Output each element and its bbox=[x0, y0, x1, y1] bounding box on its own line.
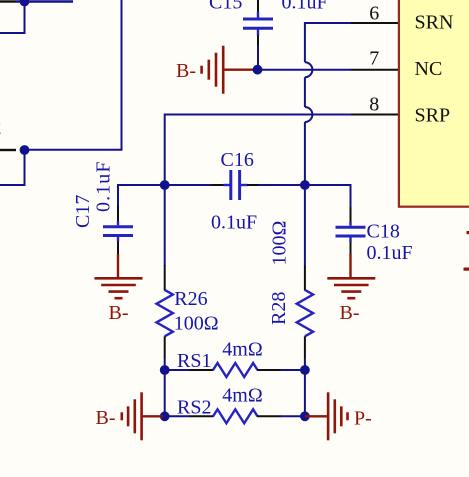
wire RS1-RS2 right bbox=[304, 370, 306, 416]
label RS2 bbox=[177, 396, 211, 418]
wire R28 to RS1 bbox=[304, 359, 306, 371]
pin 6 name SRN bbox=[415, 12, 454, 34]
junction RS2 left bbox=[160, 411, 170, 421]
power wire C17 to ground bbox=[117, 254, 119, 278]
svg-text:P-: P- bbox=[354, 408, 372, 430]
ground B- under C18 bbox=[327, 278, 375, 324]
svg-text:NC: NC bbox=[415, 58, 443, 80]
wire C16 row right bbox=[259, 184, 305, 186]
svg-text:0.1uF: 0.1uF bbox=[282, 0, 328, 14]
label C16 bbox=[221, 149, 254, 171]
label R26 bbox=[174, 288, 207, 310]
resistor RS2 bbox=[189, 409, 280, 423]
wire to C17 bbox=[118, 185, 165, 207]
capacitor C16 bbox=[212, 170, 259, 200]
resistor R26 bbox=[157, 265, 173, 359]
wire RS2 left bbox=[165, 415, 190, 417]
wire RS1-RS2 left bbox=[164, 370, 166, 416]
svg-text:C18: C18 bbox=[367, 221, 400, 243]
svg-text:4mΩ: 4mΩ bbox=[222, 384, 262, 406]
label C17 (vertical) bbox=[72, 195, 94, 228]
svg-text:R28: R28 bbox=[268, 292, 290, 325]
capacitor C15 bbox=[243, 0, 273, 46]
svg-text:C16: C16 bbox=[221, 149, 254, 171]
junction at C15 bottom bbox=[253, 65, 263, 75]
svg-text:0.1uF: 0.1uF bbox=[92, 160, 114, 212]
svg-text:RS2: RS2 bbox=[177, 396, 211, 418]
junction RS1 left bbox=[160, 365, 170, 375]
svg-text:R26: R26 bbox=[174, 288, 207, 310]
power port B- (top) bbox=[176, 46, 256, 94]
label C15 value (cut at top) bbox=[282, 0, 328, 14]
wire junction to R28 bbox=[304, 185, 306, 266]
label C17 value (vertical) bbox=[92, 160, 114, 212]
junction left mid bbox=[20, 145, 30, 155]
pin 8 number bbox=[369, 93, 379, 115]
svg-text:B-: B- bbox=[340, 302, 360, 324]
svg-text:7: 7 bbox=[369, 48, 379, 70]
label R26 value bbox=[174, 312, 219, 334]
junction C16 right bbox=[300, 180, 310, 190]
resistor R28 bbox=[297, 266, 313, 359]
resistor RS1 bbox=[189, 363, 280, 377]
wire to C18 bbox=[305, 185, 351, 208]
label RS1 bbox=[177, 350, 211, 372]
junction RS2 right bbox=[300, 411, 310, 421]
pin 6 number bbox=[369, 2, 379, 24]
svg-text:100Ω: 100Ω bbox=[269, 221, 291, 266]
wire RS2 right bbox=[280, 415, 305, 417]
power port P- (bottom right) bbox=[305, 392, 372, 440]
svg-text:C15: C15 bbox=[209, 0, 242, 14]
wire junction to R26 bbox=[164, 185, 166, 266]
label C18 bbox=[367, 221, 400, 243]
wire R26 to RS1 bbox=[164, 359, 166, 371]
capacitor C18 bbox=[336, 207, 366, 255]
junction RS1 right bbox=[300, 365, 310, 375]
label RS1 value bbox=[222, 339, 262, 361]
label R28 value (vertical) bbox=[269, 221, 291, 266]
wire RS1 left bbox=[165, 369, 190, 371]
label R28 (vertical) bbox=[268, 292, 290, 325]
svg-text:C17: C17 bbox=[72, 195, 94, 228]
wire pin7 row bbox=[258, 69, 352, 71]
svg-text:2: 2 bbox=[0, 117, 2, 139]
svg-text:B-: B- bbox=[109, 302, 129, 324]
ground B- under C17 bbox=[95, 278, 143, 324]
net label fragment (cut at left edge) bbox=[0, 117, 2, 139]
wire top-left step down bbox=[0, 2, 25, 34]
junction C16 left bbox=[160, 180, 170, 190]
wire C16 row left bbox=[118, 184, 212, 186]
wire pin8 row bbox=[165, 115, 351, 186]
power wire C18 to ground bbox=[349, 254, 351, 278]
pin 7 number bbox=[369, 48, 379, 70]
svg-text:SRP: SRP bbox=[415, 104, 451, 126]
label C16 value bbox=[211, 212, 257, 234]
pin 8 line bbox=[351, 114, 398, 116]
wire RS1 right bbox=[280, 369, 305, 371]
pin stub left mid (black, cut) bbox=[0, 149, 16, 151]
svg-text:SRN: SRN bbox=[415, 12, 454, 34]
label RS2 value bbox=[222, 384, 262, 406]
power port B- (bottom left) bbox=[96, 392, 164, 440]
svg-text:0.1uF: 0.1uF bbox=[211, 212, 257, 234]
pin 7 name NC bbox=[415, 58, 443, 80]
svg-text:0.1uF: 0.1uF bbox=[367, 242, 413, 264]
wire left mid step down bbox=[0, 150, 25, 185]
wire pin6 with hops bbox=[305, 23, 351, 185]
pin 8 name SRP bbox=[415, 104, 451, 126]
svg-text:8: 8 bbox=[369, 93, 379, 115]
wire left vertical long bbox=[25, 0, 122, 150]
wire top-left horizontal (cut) bbox=[0, 0, 73, 2]
IC U1 body (sheet part, cut off right) bbox=[399, 0, 469, 207]
svg-text:B-: B- bbox=[176, 60, 196, 82]
junction top-left bbox=[20, 0, 30, 6]
label C15 (cut at top) bbox=[209, 0, 242, 14]
capacitor C17 bbox=[103, 206, 133, 255]
component fragment right edge upper bbox=[467, 231, 469, 234]
pin 7 line bbox=[351, 69, 398, 71]
svg-text:6: 6 bbox=[369, 2, 379, 24]
svg-text:B-: B- bbox=[96, 407, 116, 429]
component fragment right edge lower bbox=[464, 268, 469, 271]
wire C15 to junction bbox=[257, 46, 259, 70]
svg-text:RS1: RS1 bbox=[177, 350, 211, 372]
svg-text:100Ω: 100Ω bbox=[174, 312, 219, 334]
svg-text:4mΩ: 4mΩ bbox=[222, 339, 262, 361]
label C18 value bbox=[367, 242, 413, 264]
pin 6 line bbox=[351, 22, 398, 24]
